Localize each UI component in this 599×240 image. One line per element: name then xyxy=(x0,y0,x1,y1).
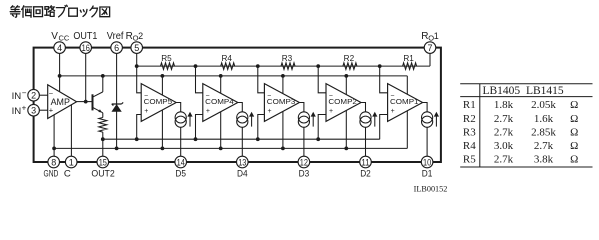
junction dot AMP output / OUT1 node xyxy=(84,100,88,104)
wire chain right end up to pin 7 RO1 xyxy=(429,48,431,67)
svg-text:13: 13 xyxy=(238,157,246,167)
svg-text:CC: CC xyxy=(59,34,70,43)
svg-text:15: 15 xyxy=(99,157,107,167)
svg-text:C: C xyxy=(64,169,71,180)
svg-text:R2: R2 xyxy=(344,54,355,63)
svg-text:IN: IN xyxy=(12,91,22,101)
current source I1 xyxy=(422,112,440,127)
svg-text:11: 11 xyxy=(361,157,369,167)
svg-text:2.7k: 2.7k xyxy=(494,126,514,138)
wire COMP4 non-inverting input from OUT2 bus xyxy=(196,115,203,140)
svg-text:D4: D4 xyxy=(237,169,248,180)
svg-text:−: − xyxy=(22,89,27,98)
svg-text:5: 5 xyxy=(134,43,139,53)
svg-text:R1: R1 xyxy=(463,99,476,111)
junction dots on OUT2 bus xyxy=(101,137,320,141)
wire pin 6 Vref down to GND bus through zener xyxy=(116,48,118,149)
svg-text:R4: R4 xyxy=(463,140,476,152)
svg-text:16: 16 xyxy=(82,43,90,53)
wire COMP2 non-inverting input from OUT2 bus xyxy=(318,115,326,140)
svg-text:+: + xyxy=(267,108,271,115)
comparator COMP3 xyxy=(264,84,299,122)
svg-text:1.8k: 1.8k xyxy=(494,99,514,111)
junction dots on VCC bus xyxy=(58,74,349,78)
svg-text:2: 2 xyxy=(138,31,143,41)
wire COMP4 inverting input tap from chain xyxy=(196,66,203,93)
wire COMP5 output to current source xyxy=(176,103,181,112)
wire COMP5 inverting input tap from chain xyxy=(137,66,142,93)
wire COMP4 ground drop to GND bus xyxy=(220,112,222,149)
comparator COMP5 xyxy=(141,84,176,122)
svg-text:R3: R3 xyxy=(463,126,476,138)
svg-text:Ω: Ω xyxy=(570,99,578,111)
wire COMP3 power drop from VCC bus xyxy=(282,76,284,94)
junction dots on resistor chain taps xyxy=(135,64,382,68)
svg-text:1.6k: 1.6k xyxy=(534,113,554,125)
transistor Q1 (emitter follower) xyxy=(93,76,103,118)
comparator COMP2 xyxy=(326,84,361,122)
svg-text:−: − xyxy=(329,93,333,100)
wire COMP5 non-inverting input from OUT2 bus xyxy=(137,115,142,140)
wire OUT2 bus feeding comparator + inputs xyxy=(103,138,380,140)
pin 8 GND xyxy=(44,156,60,179)
wire current source to pin D3 xyxy=(303,127,305,162)
wire COMP5 power drop from VCC bus xyxy=(161,76,163,95)
svg-text:2.85k: 2.85k xyxy=(531,126,556,138)
wire COMP1 inverting input tap from chain xyxy=(380,66,388,93)
svg-text:D5: D5 xyxy=(175,169,186,180)
wire COMP3 ground drop to GND bus xyxy=(282,111,284,148)
wire COMP4 power drop from VCC bus xyxy=(220,76,222,93)
svg-text:3: 3 xyxy=(31,106,36,116)
svg-text:AMP: AMP xyxy=(51,97,70,107)
comparator COMP1 xyxy=(388,84,423,122)
wire GND bus xyxy=(54,147,407,149)
svg-text:7: 7 xyxy=(427,43,432,53)
svg-text:R5: R5 xyxy=(161,54,172,63)
wire COMP1 ground drop to GND bus xyxy=(406,111,408,149)
svg-text:6: 6 xyxy=(114,43,119,53)
wire VCC bus xyxy=(60,75,408,77)
op-amp AMP xyxy=(48,85,77,119)
wire AMP output to transistor base xyxy=(77,101,92,103)
svg-text:−: − xyxy=(267,93,271,100)
svg-text:GND: GND xyxy=(44,169,59,180)
svg-text:+: + xyxy=(329,108,333,115)
wire COMP1 non-inverting input from OUT2 bus xyxy=(380,115,388,140)
svg-text:2.7k: 2.7k xyxy=(534,140,554,152)
wire pin 5 RO2 down to resistor chain xyxy=(136,48,138,67)
wire COMP2 power drop from VCC bus xyxy=(345,76,347,95)
pin 10 D1 xyxy=(421,156,433,179)
pin 16 OUT1 xyxy=(73,31,97,53)
svg-text:LB1405: LB1405 xyxy=(482,85,520,97)
svg-text:−: − xyxy=(206,93,210,100)
pin 14 D5 xyxy=(175,156,187,179)
comparator COMP4 xyxy=(203,84,238,122)
pin 5 RO2 xyxy=(126,31,144,53)
svg-text:Vref: Vref xyxy=(107,31,124,42)
svg-text:IN: IN xyxy=(12,106,22,116)
pin 15 OUT2 xyxy=(91,156,114,179)
title text (Japanese): equivalent circuit block diagram xyxy=(10,5,109,17)
svg-text:Ω: Ω xyxy=(570,113,578,125)
wire emitter resistor to pin 15 OUT2 xyxy=(102,132,104,162)
current source I3 xyxy=(298,112,316,127)
pin 2 IN- xyxy=(12,89,40,101)
resistor R6 (emitter resistor) xyxy=(99,118,107,133)
resistor value table LB1405/LB1415 xyxy=(460,84,592,167)
pin 4 VCC xyxy=(51,31,70,53)
resistor R5 xyxy=(161,63,175,70)
current source I2 xyxy=(360,112,378,127)
pin 3 IN+ xyxy=(12,104,40,116)
pin 11 D2 xyxy=(360,156,372,179)
pin 1 C xyxy=(64,156,77,179)
svg-text:R2: R2 xyxy=(463,113,476,125)
zener diode D6 (Vref clamp) xyxy=(112,102,124,111)
wire pin 16 OUT1 down to AMP output node xyxy=(85,48,87,102)
wire COMP5 ground drop to GND bus xyxy=(161,110,163,148)
wire AMP compensation leg to pin 1 (C) xyxy=(70,105,72,162)
current source I4 xyxy=(237,112,255,127)
svg-text:LB1415: LB1415 xyxy=(526,85,564,97)
svg-text:R5: R5 xyxy=(463,154,476,166)
svg-text:D2: D2 xyxy=(360,169,371,180)
svg-text:+: + xyxy=(22,104,27,113)
svg-text:OUT1: OUT1 xyxy=(73,31,97,42)
wire COMP1 power drop from VCC bus xyxy=(406,76,408,94)
pin 13 D4 xyxy=(237,156,249,179)
svg-text:−: − xyxy=(49,89,54,98)
svg-text:−: − xyxy=(390,93,394,100)
current source I5 xyxy=(175,112,193,127)
svg-text:ILB00152: ILB00152 xyxy=(414,185,448,194)
svg-text:2: 2 xyxy=(31,91,36,101)
wire current source to pin D1 xyxy=(426,127,428,162)
resistor R3 xyxy=(281,63,295,70)
svg-text:3.0k: 3.0k xyxy=(494,140,514,152)
wire COMP2 output to current source xyxy=(361,103,366,112)
svg-text:D3: D3 xyxy=(299,169,310,180)
svg-text:R3: R3 xyxy=(282,54,293,63)
resistor R4 xyxy=(221,63,235,70)
svg-text:2.05k: 2.05k xyxy=(531,99,556,111)
svg-text:12: 12 xyxy=(300,157,308,167)
wire pin 4 VCC down to AMP power point xyxy=(59,48,61,92)
svg-text:V: V xyxy=(51,31,58,42)
wire COMP3 inverting input tap from chain xyxy=(258,66,265,93)
wire COMP1 output to current source xyxy=(423,103,428,112)
svg-text:2.7k: 2.7k xyxy=(494,113,514,125)
pin 7 RO1 xyxy=(421,31,439,53)
IC package outline xyxy=(34,48,441,162)
wire COMP4 output to current source xyxy=(238,103,243,112)
svg-text:D1: D1 xyxy=(422,169,433,180)
svg-text:4: 4 xyxy=(57,43,62,53)
wire COMP3 non-inverting input from OUT2 bus xyxy=(258,115,265,140)
junction dots on GND bus xyxy=(52,147,348,151)
svg-text:R1: R1 xyxy=(403,54,414,63)
svg-text:8: 8 xyxy=(51,157,56,167)
wire current source to pin D2 xyxy=(365,127,367,162)
svg-text:1: 1 xyxy=(69,157,74,167)
svg-text:+: + xyxy=(144,108,148,115)
pin 12 D3 xyxy=(298,156,310,179)
svg-text:1: 1 xyxy=(434,31,439,41)
svg-text:Ω: Ω xyxy=(570,154,578,166)
wire current source to pin D4 xyxy=(241,127,243,162)
wire AMP ground leg to pin 8 xyxy=(53,115,55,162)
svg-text:+: + xyxy=(49,105,54,114)
wire current source to pin D5 xyxy=(180,127,182,162)
wire resistor chain rail RO2 to RO1 xyxy=(137,65,430,67)
wire AMP non-inverting input from pin 3 xyxy=(39,109,47,111)
svg-text:+: + xyxy=(391,108,395,115)
svg-text:+: + xyxy=(206,108,210,115)
svg-text:Ω: Ω xyxy=(570,140,578,152)
svg-text:10: 10 xyxy=(423,157,431,167)
svg-text:OUT2: OUT2 xyxy=(91,169,114,180)
svg-text:14: 14 xyxy=(177,157,185,167)
svg-text:3.8k: 3.8k xyxy=(534,154,554,166)
svg-text:−: − xyxy=(144,93,148,100)
svg-text:2.7k: 2.7k xyxy=(494,154,514,166)
wire COMP3 output to current source xyxy=(299,103,304,112)
resistor R2 xyxy=(343,63,357,70)
wire AMP inverting input from pin 2 xyxy=(39,94,47,96)
pin 6 Vref xyxy=(107,31,124,53)
wire COMP2 inverting input tap from chain xyxy=(318,66,326,93)
wire COMP2 ground drop to GND bus xyxy=(345,110,347,148)
svg-text:R4: R4 xyxy=(221,54,232,63)
svg-text:Ω: Ω xyxy=(570,126,578,138)
resistor R1 xyxy=(403,63,417,70)
